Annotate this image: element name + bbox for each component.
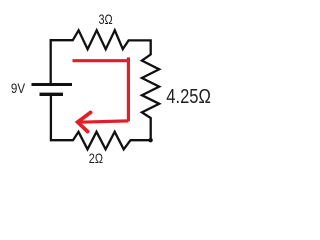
resistor R2 4.25Ω (right vertical zigzag)	[142, 54, 159, 118]
svg-text:2Ω: 2Ω	[89, 150, 103, 166]
wire: left vertical (battery + to top-left corner) and top-left stub	[51, 40, 73, 84]
junction dot at bottom-right corner	[148, 138, 152, 142]
resistor R1 3Ω (top zigzag)	[73, 30, 129, 49]
wire: bottom-right corner	[131, 118, 151, 140]
svg-text:3Ω: 3Ω	[99, 11, 113, 27]
svg-text:4.25Ω: 4.25Ω	[166, 86, 211, 108]
wire: bottom-left corner up to battery minus plate	[51, 96, 73, 141]
svg-text:9V: 9V	[11, 80, 26, 96]
resistor R3 2Ω (bottom zigzag)	[73, 132, 131, 150]
current arrowhead (points left)	[78, 112, 91, 131]
wire: top-right corner	[129, 40, 151, 54]
battery B1 short (-) plate	[40, 93, 64, 96]
current loop (red, clockwise)	[73, 57, 129, 122]
battery B1 long (+) plate	[32, 83, 73, 86]
